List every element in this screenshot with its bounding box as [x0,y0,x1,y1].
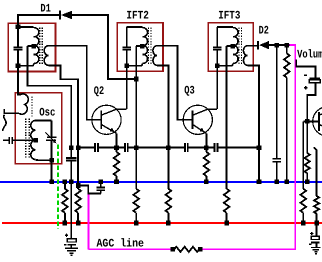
node IFT2 primary bottom junction [124,64,129,69]
node R6 red junction [224,221,229,226]
wire B+ common rail (blue) [0,181,322,183]
capacitor C4 coupling [117,147,125,149]
node antenna coil T1 primary tap junction [31,44,36,49]
inductor IFT3 secondary winding [243,46,247,66]
transistor Q3 base bar [192,110,194,129]
capacitor inside IFT3 (resonating) [216,27,218,47]
C10 minus sign [64,244,67,246]
capacitor C10 electrolytic [67,239,76,242]
wire T1 tap down-staircase to blue rail [27,46,71,158]
resistor R11 AGC filter [174,247,199,252]
resistor R3 Q2 emitter [114,152,120,176]
inductor antenna coil T1 primary winding [34,28,39,64]
node stray junction on tap staircase [69,145,74,150]
node R2 red junction [76,221,81,226]
node AGC resistor right [198,247,203,252]
resistor R10 Q4 emitter [314,196,319,214]
arrow of osc trimmer [45,132,53,140]
node R3 blue junction [114,180,119,185]
core of IFT2 (dotted) [148,28,150,65]
node T1 tap line junction [31,44,36,49]
wire Osc tank top lead [36,119,52,121]
wire Osc tap to padding capacitor [13,139,36,141]
node IFT3 secondary blue junction [257,180,262,185]
capacitor C3 bypass [94,143,96,152]
resistor R9 Q4 base to blue rail [306,121,308,153]
transistor Q2 circle [92,105,121,134]
node D1 to IFT2 tap junction [134,77,139,82]
wire antenna coil T1 primary bottom lead [18,64,34,66]
capacitor C5 bypass [184,143,186,152]
node AGC resistor left [171,247,176,252]
oscillator coil shield box [15,93,61,164]
node Q2 emitter junction [114,145,119,150]
svg-text:IFT2: IFT2 [126,10,149,23]
node IFT3 primary tap junction [231,44,236,49]
node bus-IFT2 secondary junction [166,145,171,150]
wire Osc winding lead to gang capacitor [4,109,19,113]
capacitor tuning gang rotor (curved plate) [3,115,7,131]
wire Q4 emitter drop with arrow [314,148,316,196]
wire blue rail to C10 [70,182,72,239]
wire IFT3 primary top lead [217,26,233,28]
wire antenna coil T1 primary tap [27,45,33,47]
wire Q3 emitter [193,124,207,133]
C10 plus sign [65,234,68,236]
inductor antenna coil T1 secondary winding [44,46,48,66]
node detector junction 1 [275,43,280,48]
node R1 red junction [63,221,68,226]
capacitor C9 electrolytic coupling [309,78,320,80]
resistor R5 Q3 emitter [204,152,210,176]
wire IFT2 primary top lead [127,26,143,28]
resistor R1 divider [64,182,66,189]
diode D1 [59,11,61,20]
node Q4 base junction [305,119,310,124]
node AGC takeoff junction [76,183,81,188]
wire IFT3 secondary bottom lead [248,66,259,182]
wire D1 anode from T1 top [18,15,59,27]
node Q3 emitter junction [204,145,209,150]
wire volume wiper to coupling cap [296,60,315,79]
capacitor C7 AGC bypass [100,182,102,188]
core of Osc coil lower (dotted) [25,119,27,160]
resistor VR volume control [286,45,288,53]
transistor Q2 base bar [100,110,102,129]
C11 plus sign [310,233,313,235]
capacitor C6 coupling [206,147,214,149]
wire IFT2 secondary bottom lead [157,66,168,189]
inductor Osc antenna-side winding [19,94,28,114]
node VR blue junction [285,180,290,185]
resistor R2 Q2 base bias [75,189,81,213]
C9 minus sign [304,74,307,76]
node IFT2 primary tap junction [140,44,145,49]
inductor IFT3 primary winding [233,28,238,64]
node antenna coil T1 top junction [16,25,21,30]
wire B- rail (red) [2,222,322,224]
capacitor osc trimmer plates [51,120,53,137]
wire Q4 base [303,120,319,122]
node R5 blue junction [204,180,209,185]
C9 plus sign [304,87,307,89]
transistor Q4 base bar [318,112,320,131]
wire IFT3 primary tap [227,45,233,47]
svg-text:Volume: Volume [297,49,322,62]
arrow Q3 emitter [200,128,205,132]
wire AGC takeoff [78,186,101,194]
wire Q2 collector to IFT2 primary [101,109,127,115]
ground below C11 [315,242,317,247]
wire red rail to C11 [315,223,317,236]
wire T1 secondary top lead to Q2 base [48,46,101,120]
node R4 red junction [134,221,139,226]
transistor Q3 circle [183,105,212,134]
arrow Q2 emitter [110,128,115,132]
node R9 blue junction [305,180,310,185]
wire Q2 emitter [101,124,116,133]
wire bypass bus left segment [78,147,95,149]
capacitor C2 osc coupling [66,157,76,159]
wire osc tank bottom to blue rail [51,160,53,182]
wire Q3 collector to IFT3 primary [193,109,218,115]
resistor R6 IFT3 tap feed [224,189,230,213]
capacitor inside IFT2 (resonating) [126,27,128,47]
wire Q4 emitter [319,124,322,131]
capacitor inside antenna coil T1 (resonating) [17,27,19,47]
IFT3 shield box [208,23,253,71]
node R1 blue junction [63,180,68,185]
node R8 red junction [301,221,306,226]
node bus-IFT3 secondary junction [257,145,262,150]
wire Q4 collector [319,110,322,116]
antenna transformer shield box [8,23,55,71]
svg-text:D1: D1 [40,2,51,15]
capacitor C8 detector filter [276,45,278,159]
node detector junction 2 [285,43,290,48]
core of antenna coil T1 (dotted) [39,28,41,65]
capacitor C11 electrolytic [311,236,319,239]
node antenna coil T1 primary bottom junction [16,64,21,69]
node R10 red junction [314,221,319,226]
svg-text:Osc: Osc [39,106,55,119]
transistor Q4 circle [313,107,322,136]
resistor R8 Q4 bias to red rail [302,121,304,188]
ground below C10 [70,245,72,248]
node C8 blue junction [275,180,280,185]
node Osc tank tap [33,138,38,143]
wire T1 secondary bottom lead staircase [48,66,78,189]
resistor R7 Q3 base bias [166,189,172,213]
wire IFT3 secondary top lead to D2 [248,45,258,47]
wire IFT3 tap line down to R6 [226,46,228,189]
wire antenna coil T1 primary top lead [18,26,34,28]
node IFT3 primary bottom junction [215,64,220,69]
node osc-blue junction [49,180,54,185]
wire bus to C5 [168,147,185,149]
svg-text:Q3: Q3 [184,84,195,97]
wire IFT3 primary bottom lead [217,64,233,66]
IFT2 shield box [117,23,163,71]
wire tuning-gang link (green dashed) [57,145,59,230]
svg-text:D2: D2 [259,25,269,38]
svg-text:Q2: Q2 [94,85,104,98]
wire IFT2 secondary top lead to Q3 base [157,46,192,120]
capacitor padding (osc) [3,139,8,141]
wire T1 bottom into oscillator coil [18,66,21,95]
node R7 red junction [166,221,171,226]
inductor IFT2 primary winding [142,28,147,64]
inductor Osc tank winding [31,120,36,159]
node bus-IFT2 tap junction [134,145,139,150]
svg-text:AGC line: AGC line [97,237,145,250]
wire IFT2 primary bottom lead [127,64,143,66]
wire IFT2 primary tap [136,45,142,47]
wire Osc tank bottom lead [36,159,52,162]
node tap-staircase blue junction [69,180,74,185]
wire IFT2 tap line down to R4 [135,46,137,189]
diode D2 [257,41,259,50]
inductor IFT2 secondary winding [153,46,157,66]
wire bypass bus middle segment [136,147,168,149]
resistor R4 IFT2 tap feed [133,189,139,213]
node staircase T junction [76,145,81,150]
core of Osc coil upper (dotted) [31,97,33,117]
core of IFT3 (dotted) [238,28,240,65]
wire AGC line (magenta) [200,45,295,249]
node osc tank bottom junction [49,158,54,163]
node C7 blue junction [99,180,104,185]
svg-text:IFT3: IFT3 [218,10,240,23]
